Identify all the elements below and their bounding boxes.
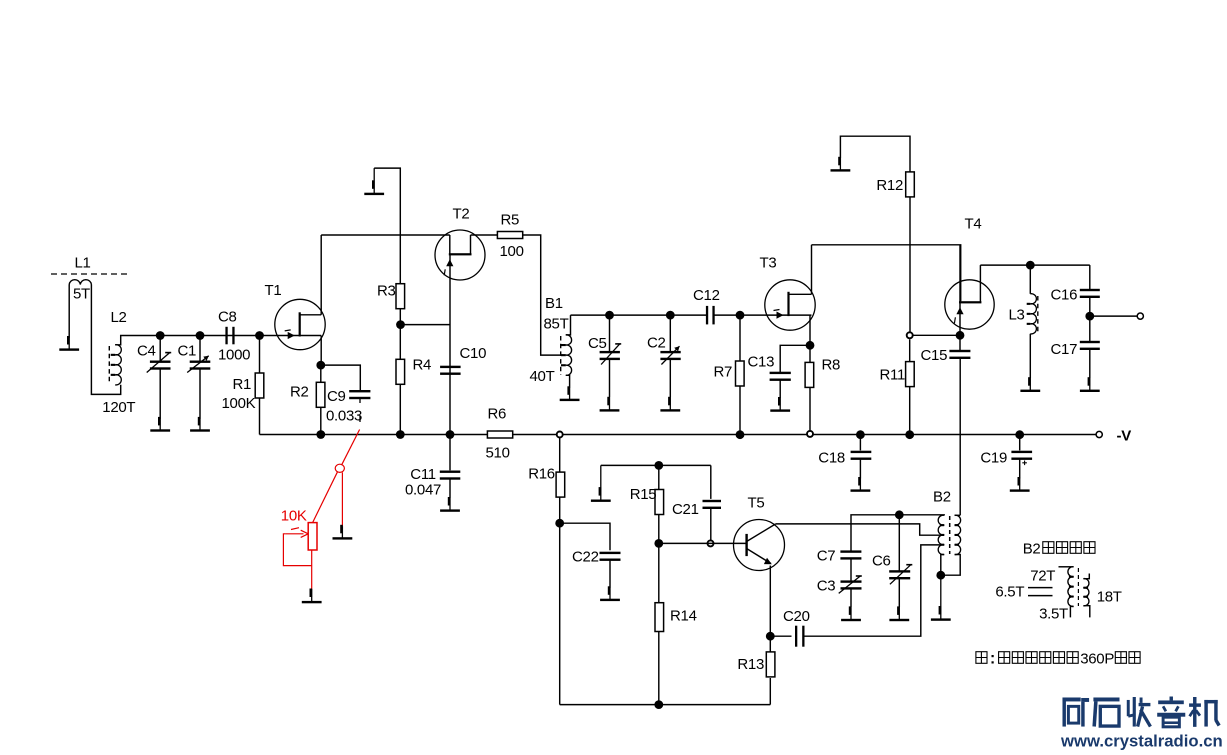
node R15-R14 junction	[654, 539, 663, 548]
ground for C18	[859, 479, 861, 491]
variable capacitor C2	[669, 315, 671, 353]
mini transformer top lead	[1059, 566, 1074, 568]
ground for B1	[569, 388, 571, 400]
inductor L3 core dashes	[1037, 296, 1039, 333]
wire output rail T4 to C16	[980, 264, 1089, 266]
svg-text:C12: C12	[693, 287, 720, 304]
svg-text:3.5T: 3.5T	[1039, 606, 1068, 623]
capacitor C16	[1089, 265, 1091, 289]
svg-text:C10: C10	[460, 345, 487, 362]
inductor L3	[1029, 265, 1031, 294]
svg-text:C15: C15	[921, 347, 948, 364]
resistor R13	[769, 636, 771, 652]
capacitor C10	[440, 366, 461, 368]
wire T4 gate down	[959, 302, 961, 331]
svg-text:C17: C17	[1051, 341, 1078, 358]
ground arm top right	[840, 136, 910, 172]
logo crystalradio	[1062, 697, 1089, 726]
node C6 junction	[895, 510, 904, 519]
node R7 bus junction	[736, 430, 745, 439]
node T5 emitter junction	[766, 632, 775, 641]
svg-text:40T: 40T	[530, 368, 555, 385]
wire T5 base	[659, 542, 747, 544]
resistor R3	[396, 284, 405, 309]
node T1 source junction	[316, 361, 325, 370]
svg-text:360P: 360P	[1080, 651, 1114, 668]
node C4 junction	[156, 331, 165, 340]
red wiper arrow	[285, 528, 308, 538]
svg-text:1000: 1000	[218, 347, 250, 364]
switch contact red circle	[335, 464, 344, 472]
svg-text:T5: T5	[748, 495, 765, 512]
-V terminal	[1096, 431, 1102, 437]
svg-text:120T: 120T	[102, 399, 135, 416]
node T3 gate junction	[736, 311, 745, 320]
inductor L1	[69, 280, 91, 285]
resistor R6	[487, 431, 512, 438]
svg-text:C4: C4	[137, 342, 156, 359]
wire R5 to B1 tap	[523, 235, 564, 355]
svg-text:R8: R8	[822, 357, 841, 374]
potentiometer 10K red	[308, 523, 317, 550]
wire T2 gate down through C10 to bus	[449, 254, 451, 434]
svg-text:R7: R7	[714, 364, 733, 381]
ground for C1	[199, 419, 201, 430]
wire C12 to T3 gate	[713, 314, 789, 316]
wire T3 source down	[809, 315, 811, 345]
svg-text:10K: 10K	[281, 508, 307, 525]
wire -V bus	[260, 434, 488, 436]
svg-text:R11: R11	[880, 367, 906, 384]
ground below red contact	[341, 526, 343, 538]
svg-text:C20: C20	[783, 608, 810, 625]
transformer B2 core dashes	[949, 516, 951, 554]
variable capacitor C4	[159, 336, 161, 363]
wire B2 right top lead	[955, 514, 961, 516]
wire L1 left lead	[68, 285, 70, 339]
transformer B1 coil	[566, 335, 572, 376]
svg-text:T3: T3	[760, 255, 777, 272]
wire T3 drain up	[811, 245, 813, 294]
svg-text:B1: B1	[545, 295, 563, 312]
wire B2 left bottom lead	[941, 555, 944, 576]
node T3 source junction	[806, 341, 815, 350]
wire T5 collector to B2	[776, 524, 940, 535]
node C10-C11 bus junction	[446, 430, 455, 439]
wire pot bottom	[311, 550, 313, 589]
variable capacitor C3	[850, 559, 852, 581]
node B2 ground junction	[936, 571, 945, 580]
capacitor C21	[710, 465, 712, 499]
svg-text:R1: R1	[233, 376, 252, 393]
wire drain rail T1-T2	[321, 234, 450, 236]
wire R16 down to bottom rail	[559, 523, 561, 704]
wire bottom rail up to R13	[769, 678, 771, 705]
variable capacitor C5	[609, 315, 611, 353]
svg-text:C11: C11	[410, 466, 436, 483]
antenna coil L1 dashed top line	[51, 273, 129, 275]
node R14 bottom junction	[654, 700, 663, 709]
svg-text:C18: C18	[818, 450, 845, 467]
svg-text:-V: -V	[1117, 428, 1132, 445]
ground for L1	[68, 338, 70, 350]
svg-text:C3: C3	[817, 578, 836, 595]
transistor T1	[275, 299, 325, 349]
capacitor C7	[840, 550, 861, 552]
wire L2 top lead	[115, 336, 160, 345]
ground for B2	[940, 575, 942, 619]
capacitor C19 electrolytic	[1019, 435, 1021, 451]
node R11 bus junction	[905, 430, 914, 439]
variable capacitor C6	[898, 515, 900, 571]
ground for C6	[898, 607, 900, 620]
svg-text:C1: C1	[178, 342, 197, 359]
wire T1 drain up to rail	[320, 235, 322, 315]
ground top right	[839, 158, 841, 170]
svg-text:100: 100	[500, 243, 524, 260]
wire R3 bottom to junction	[399, 309, 401, 325]
svg-text:L3: L3	[1009, 307, 1025, 324]
resistor R8	[809, 345, 811, 362]
mini transformer core dashes	[1077, 568, 1079, 606]
svg-text:L2: L2	[111, 309, 127, 326]
ground for L3	[1029, 378, 1031, 391]
node C18 bus junction	[856, 430, 865, 439]
mini transformer left bottom lead	[1070, 606, 1073, 617]
wire red contact to ground	[341, 472, 343, 526]
wire B1 top lead	[566, 315, 571, 335]
svg-text:R4: R4	[413, 357, 432, 374]
svg-text:C6: C6	[872, 553, 891, 570]
resistor R12	[906, 172, 915, 197]
ground arm for R15	[601, 464, 711, 466]
node T1 gate junction	[255, 331, 264, 340]
node C5 junction	[605, 311, 614, 320]
wire C20 to B2 tap	[805, 545, 940, 636]
node C19 bus junction	[1015, 430, 1024, 439]
svg-text:L1: L1	[75, 255, 91, 272]
wire dashed red link from C9	[342, 430, 360, 466]
ground for C3	[850, 607, 852, 620]
svg-text:T2: T2	[453, 206, 470, 223]
node R2 bus junction	[316, 430, 325, 439]
svg-text:C16: C16	[1051, 287, 1078, 304]
svg-text:C13: C13	[748, 354, 775, 371]
transformer B2 right winding	[955, 515, 961, 554]
ground top middle	[373, 168, 375, 194]
node R15 top junction	[654, 461, 663, 470]
ground for C22	[609, 588, 611, 600]
node R16 bus junction	[557, 432, 563, 438]
transformer B1 core dashes	[560, 336, 562, 375]
node R12-R11 junction	[907, 332, 913, 338]
wire dashed C9 to pot	[359, 397, 361, 430]
svg-text:510: 510	[486, 445, 510, 462]
node R4 bus junction	[396, 430, 405, 439]
svg-text:B2: B2	[933, 489, 951, 506]
capacitor C17	[1089, 316, 1091, 341]
svg-text:72T: 72T	[1030, 568, 1055, 585]
wire L1 right lead to L2 bottom	[91, 285, 120, 395]
resistor R5	[471, 234, 498, 236]
ground for C2	[669, 397, 671, 410]
svg-text:C8: C8	[218, 309, 237, 326]
wire B2 right bottom lead	[941, 555, 960, 576]
ground for C5	[609, 397, 611, 410]
ground for C13	[779, 398, 781, 411]
mini transformer right coil	[1083, 579, 1089, 606]
ground for C4	[159, 419, 161, 430]
transformer B2 left winding	[938, 515, 944, 554]
capacitor C8	[225, 327, 227, 345]
ground below pot	[311, 589, 313, 602]
node C21 base junction	[708, 540, 714, 546]
resistor R4	[399, 325, 401, 360]
svg-text:C5: C5	[588, 335, 607, 352]
inductor L2 core dashes	[108, 346, 110, 384]
wire R12 down to junction	[909, 197, 911, 335]
svg-text:18T: 18T	[1097, 589, 1122, 606]
resistor R7	[739, 315, 741, 361]
ground for C19	[1019, 479, 1021, 491]
inductor L2	[115, 345, 121, 385]
node R3-R4 junction	[396, 320, 405, 329]
transistor T4	[945, 280, 994, 329]
transistor T3	[765, 280, 815, 330]
svg-text:R5: R5	[501, 212, 520, 229]
wire drain rail T3-T4	[812, 245, 961, 301]
capacitor C11	[449, 435, 451, 471]
svg-text:C22: C22	[572, 549, 599, 566]
capacitor C12	[706, 306, 708, 325]
wire C15 down through bus to B2 primary	[959, 359, 961, 516]
ground arm above R3	[374, 168, 400, 284]
svg-text:R13: R13	[737, 656, 764, 673]
ground for C11	[449, 498, 451, 511]
capacitor C20	[770, 635, 791, 637]
svg-text:5T: 5T	[73, 286, 90, 303]
resistor R11	[909, 339, 911, 361]
mini transformer left coil	[1068, 567, 1074, 607]
svg-text:C9: C9	[327, 388, 346, 405]
svg-text:R14: R14	[670, 608, 697, 625]
resistor R1	[259, 336, 261, 374]
output terminal	[1137, 313, 1143, 319]
node R8 bus junction	[807, 431, 813, 437]
wire T1 source down	[320, 336, 322, 366]
node output junction	[1085, 312, 1094, 321]
transistor T2	[435, 230, 485, 280]
svg-text:R16: R16	[528, 466, 555, 483]
svg-text:0.047: 0.047	[405, 482, 441, 499]
ground left of R15	[600, 465, 602, 500]
variable capacitor C1	[199, 336, 201, 363]
wire junction to T4 gate	[913, 334, 957, 336]
capacitor C9 arm	[321, 365, 361, 390]
transistor T5	[734, 520, 785, 571]
svg-text:C21: C21	[672, 501, 699, 518]
svg-text:T1: T1	[265, 282, 282, 299]
capacitor C13 arm	[780, 345, 810, 372]
mini transformer right bottom lead	[1083, 606, 1089, 618]
mini transformer tap leads 6.5T	[1028, 587, 1053, 589]
svg-text:R2: R2	[290, 384, 309, 401]
wire T5 emitter down	[769, 566, 771, 637]
ground for C17	[1089, 378, 1091, 391]
svg-text:R12: R12	[876, 177, 903, 194]
svg-text:R15: R15	[630, 486, 657, 503]
node L3 junction	[1026, 261, 1035, 270]
capacitor C15	[959, 339, 961, 350]
wire to output terminal	[1090, 315, 1137, 317]
svg-text:B2: B2	[1023, 541, 1041, 558]
wire B1 bottom lead	[566, 375, 570, 388]
node T4 gate junction	[956, 331, 965, 340]
wire red wiper loop	[283, 534, 311, 566]
wire C7 top rail	[851, 515, 945, 552]
wire input rail to T1 gate	[160, 335, 299, 337]
node C2 junction	[666, 311, 675, 320]
wire IF rail B1 to C12	[571, 314, 708, 316]
wire red to pot	[313, 472, 338, 523]
svg-text:100K: 100K	[222, 395, 256, 412]
note text	[976, 652, 987, 664]
svg-text:www.crystalradio.cn: www.crystalradio.cn	[1060, 732, 1223, 751]
svg-text:85T: 85T	[544, 316, 569, 333]
resistor R2	[320, 365, 322, 382]
svg-text:R3: R3	[377, 283, 396, 300]
wire junction to T2 gate line	[401, 324, 451, 326]
svg-text:C19: C19	[980, 450, 1007, 467]
resistor R14	[658, 543, 660, 602]
svg-text:6.5T: 6.5T	[995, 584, 1024, 601]
svg-text:C2: C2	[647, 335, 666, 352]
svg-text:C7: C7	[817, 548, 836, 565]
node R16-C22 junction	[555, 519, 564, 528]
capacitor C18	[859, 435, 861, 451]
capacitor C22 arm	[560, 523, 610, 550]
svg-text:R6: R6	[488, 406, 507, 423]
wire bottom rail	[560, 704, 771, 706]
resistor R15	[658, 465, 660, 489]
mini transformer right top lead	[1083, 574, 1089, 579]
svg-text:0.033: 0.033	[326, 408, 362, 425]
node C1 junction	[196, 331, 205, 340]
resistor R16	[559, 438, 561, 473]
svg-text:T4: T4	[965, 216, 982, 233]
